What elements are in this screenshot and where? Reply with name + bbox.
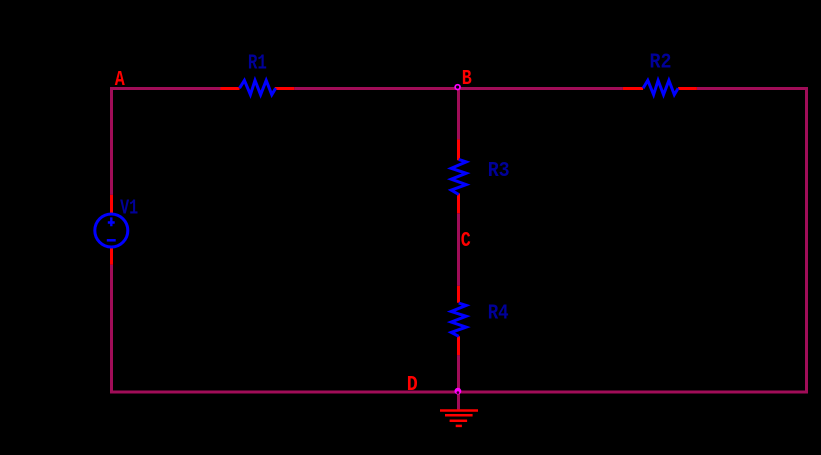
source V1 plus sign <box>108 217 115 226</box>
resistor R1 pins <box>221 87 295 90</box>
wire left vertical lower (V1 to bottom) <box>110 265 113 394</box>
wire left vertical upper (A to V1) <box>110 87 113 195</box>
source V1 circle <box>95 214 128 247</box>
resistor R1 zigzag <box>240 80 276 94</box>
svg-text:R4: R4 <box>488 302 509 325</box>
node B junction dot <box>455 85 460 90</box>
wire top segment R2 to right corner <box>697 87 808 90</box>
svg-text:R1: R1 <box>248 53 267 76</box>
wire top segment A to R1 <box>110 87 221 90</box>
node D junction dot <box>455 388 462 395</box>
resistor R3 pins <box>457 139 460 213</box>
svg-text:A: A <box>115 69 125 92</box>
svg-text:R3: R3 <box>488 160 510 183</box>
ground bar 3 <box>450 419 468 422</box>
wire bottom horizontal <box>110 391 808 394</box>
resistor R4 zigzag <box>451 303 466 336</box>
svg-text:V1: V1 <box>120 198 138 221</box>
resistor R3 zigzag <box>451 159 466 194</box>
wire top segment R1 to R2 through B <box>294 87 623 90</box>
svg-text:C: C <box>461 230 471 253</box>
wire right vertical <box>805 87 808 394</box>
ground bar 4 <box>456 425 462 428</box>
wire middle vertical R3 to R4 through C <box>457 213 460 286</box>
svg-text:B: B <box>462 68 472 91</box>
wire middle vertical R4 to D and ground stem <box>457 355 460 410</box>
ground bar 1 <box>440 409 478 412</box>
resistor R2 pins <box>623 87 697 90</box>
source V1 minus sign <box>107 239 116 242</box>
resistor R4 pins <box>457 286 460 355</box>
svg-text:D: D <box>407 374 418 397</box>
wire middle vertical B to R3 <box>457 89 460 140</box>
source V1 pins <box>110 195 113 265</box>
svg-text:R2: R2 <box>650 52 672 75</box>
resistor R2 zigzag <box>643 80 678 94</box>
ground bar 2 <box>445 414 473 417</box>
